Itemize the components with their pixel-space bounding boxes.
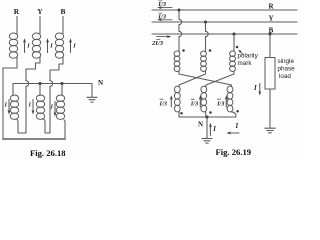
- junction dot (winding c top on bus): [60, 82, 63, 85]
- primary winding R phase: [9, 33, 17, 58]
- svg-text:Fig. 26.18: Fig. 26.18: [30, 148, 66, 158]
- wire Y lead: [39, 17, 41, 34]
- lower winding 1: [174, 86, 180, 112]
- label I/3 (line R): [157, 1, 166, 8]
- wire R lead: [16, 17, 18, 34]
- neutral bus N: [13, 83, 92, 85]
- svg-text:single: single: [278, 58, 295, 65]
- polarity dot winding 2: [209, 49, 212, 52]
- crossover hop (Y wire over bus): [26, 81, 29, 87]
- junction dot line B / winding 3: [232, 32, 235, 35]
- svg-text:I: I: [72, 43, 76, 50]
- wire R-phase bottom to left rail and bottom rail to winding c riser: [3, 58, 17, 140]
- wire lower winding leads to neutral rail: [178, 112, 180, 117]
- junction dot neutral: [205, 115, 208, 118]
- svg-text:I: I: [4, 103, 8, 109]
- secondary winding b: [36, 95, 44, 119]
- current arrow I (Y primary, up): [46, 38, 53, 52]
- svg-text:I: I: [50, 105, 54, 111]
- top winding 1: [174, 51, 180, 71]
- svg-text:I/3: I/3: [190, 100, 199, 107]
- svg-text:N: N: [198, 121, 203, 129]
- wire bus end down to secondary winding a top: [12, 84, 14, 96]
- current arrow I (return, left): [226, 123, 239, 135]
- secondary winding a: [10, 95, 18, 119]
- lower winding 2: [201, 86, 207, 112]
- crossover hop (over B line): [206, 31, 209, 36]
- polarity dot winding 3: [236, 46, 239, 49]
- wire Y-phase bottom to secondary winding a bottom (crossover hop at neutral bus): [18, 58, 40, 134]
- wire neutral to earth: [206, 117, 208, 138]
- wire winding 2 bottom to lower winding 1 top (diagonal): [179, 71, 206, 86]
- wire riser to secondary winding c bottom: [64, 120, 65, 139]
- top winding 3: [230, 51, 236, 71]
- ground (load earth): [265, 128, 275, 133]
- current arrow I (secondary a, down): [4, 100, 11, 115]
- current arrow I/3 (line R, left): [157, 6, 172, 9]
- current arrow 2I/3 (line B, right): [157, 35, 172, 38]
- primary winding B phase: [55, 33, 63, 58]
- svg-text:polarity: polarity: [238, 53, 259, 60]
- wire bus to secondary winding c top: [61, 84, 63, 96]
- current arrow I (neutral, up): [209, 123, 216, 136]
- wire drop to winding 3: [233, 34, 235, 52]
- wire load tap down: [269, 34, 271, 58]
- svg-text:I/3: I/3: [157, 1, 166, 8]
- svg-text:I: I: [49, 43, 53, 50]
- polarity dot winding 1: [182, 49, 185, 52]
- ground (neutral earth): [202, 139, 212, 144]
- svg-text:I/3: I/3: [159, 100, 168, 107]
- wire B-phase bottom to secondary winding b bottom (crossover hop at neutral bus): [45, 58, 63, 134]
- wire winding b bottom exit: [43, 119, 46, 122]
- current arrow I (secondary c, down): [50, 102, 57, 117]
- svg-text:N: N: [98, 79, 103, 87]
- svg-text:Fig. 26.19: Fig. 26.19: [216, 147, 252, 157]
- svg-text:2I/3: 2I/3: [151, 40, 164, 47]
- svg-text:B: B: [60, 7, 65, 16]
- wire winding a bottom exit: [16, 119, 18, 122]
- secondary winding c: [56, 95, 64, 119]
- wire phase line Y: [152, 21, 297, 23]
- wire winding 1 bottom to lower winding 3 top (long diagonal): [179, 71, 232, 86]
- current arrow I (secondary b, down): [28, 100, 35, 115]
- wire winding 3 bottom to lower winding 2 top (diagonal): [206, 71, 235, 86]
- svg-text:I: I: [28, 103, 32, 109]
- junction dot line R / winding 1: [177, 8, 180, 11]
- crossover hop (over B line): [179, 31, 182, 36]
- polarity dot lower winding 1: [180, 112, 183, 115]
- lower winding 3: [227, 86, 233, 112]
- wire drop to winding 2 (hops over line B): [205, 22, 207, 52]
- junction dot (winding b top on bus): [38, 82, 41, 85]
- top winding 2: [201, 51, 207, 71]
- polarity mark callout arrow: [240, 51, 244, 55]
- junction dot line Y / winding 2: [204, 20, 207, 23]
- polarity dot lower winding 3: [236, 110, 239, 113]
- current arrow I (B primary, up): [69, 38, 76, 52]
- current arrow I/3 (line Y, left): [157, 18, 172, 21]
- svg-text:I: I: [235, 123, 239, 130]
- svg-text:Y: Y: [37, 7, 43, 16]
- wire bus to earth: [91, 84, 93, 98]
- wire load bottom to earth: [269, 89, 271, 128]
- label I/3 with arrow (lower winding 2, up): [190, 95, 202, 107]
- wire bottom rail: [3, 138, 65, 140]
- polarity dot lower winding 2: [209, 111, 212, 114]
- svg-text:R: R: [268, 3, 274, 11]
- label I/3 with arrow (lower winding 1, up): [159, 95, 173, 107]
- crossover hop (over Y line): [179, 19, 182, 24]
- junction dot load tap on line B: [268, 32, 271, 35]
- wire neutral rail: [179, 116, 236, 118]
- svg-text:I/3: I/3: [216, 100, 225, 107]
- label I/3 with arrow (lower winding 3, up): [216, 95, 228, 107]
- svg-text:load: load: [279, 73, 291, 80]
- svg-text:Y: Y: [268, 15, 273, 23]
- single phase load box: [265, 58, 275, 90]
- current arrow I (load, down): [253, 84, 261, 96]
- current arrow I (R primary, up): [23, 38, 30, 52]
- svg-text:R: R: [14, 7, 20, 16]
- ground (left figure earth): [87, 97, 97, 102]
- label I/3 (line Y): [157, 13, 166, 20]
- crossover hop (B wire over bus): [50, 81, 53, 87]
- svg-text:I/3: I/3: [157, 13, 166, 20]
- wire phase line B: [152, 33, 297, 35]
- wire B lead: [62, 17, 64, 34]
- wire phase line R: [152, 9, 297, 11]
- svg-text:mark: mark: [238, 60, 253, 67]
- svg-text:I: I: [26, 43, 30, 50]
- primary winding Y phase: [32, 33, 40, 58]
- wire drop to winding 1 (hops over lines Y and B): [178, 10, 180, 52]
- svg-text:I: I: [253, 85, 257, 92]
- svg-text:I: I: [212, 126, 216, 133]
- label 2I/3 (line B): [151, 39, 164, 47]
- wire bus to secondary winding b top: [39, 84, 41, 96]
- svg-text:phase: phase: [278, 65, 296, 72]
